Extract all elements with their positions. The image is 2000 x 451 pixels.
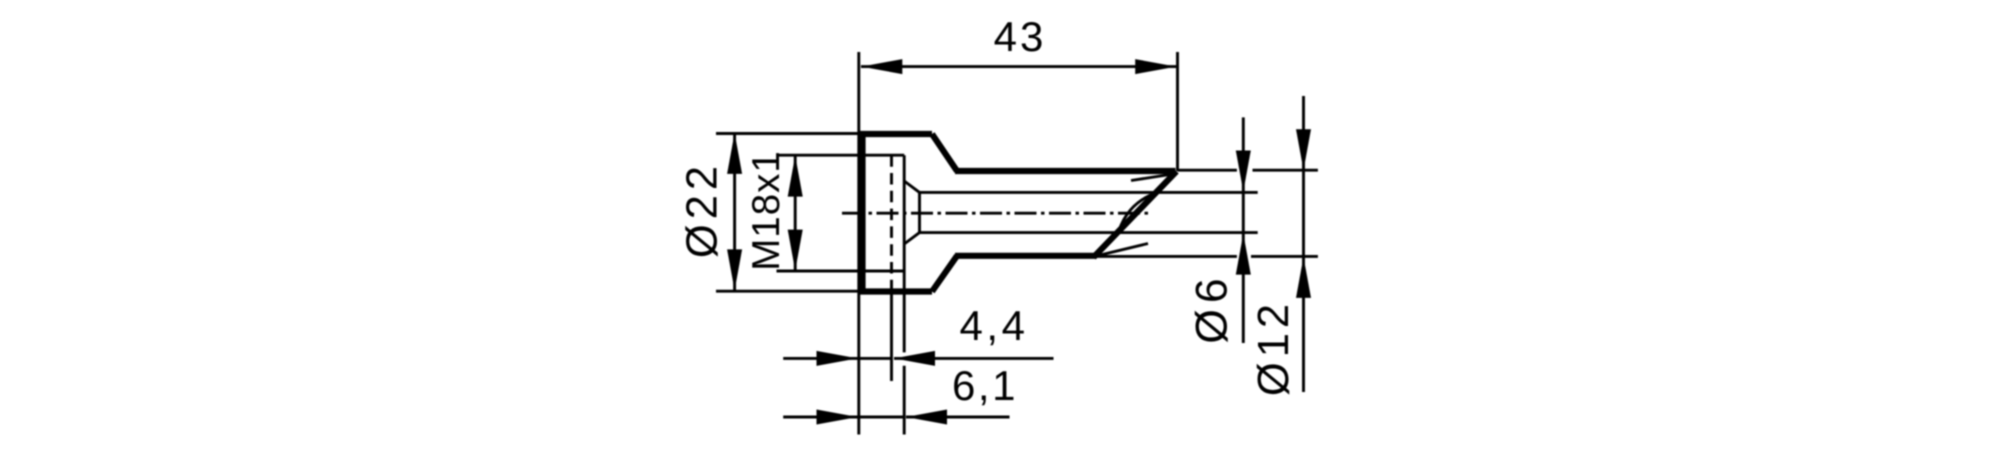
svg-text:Ø6: Ø6 (1188, 272, 1237, 343)
svg-text:Ø12: Ø12 (1250, 299, 1298, 396)
svg-text:6,1: 6,1 (952, 362, 1018, 409)
svg-text:Ø22: Ø22 (679, 161, 727, 258)
svg-text:M18x1: M18x1 (745, 150, 788, 271)
svg-text:4,4: 4,4 (960, 302, 1029, 349)
svg-text:43: 43 (994, 13, 1047, 60)
